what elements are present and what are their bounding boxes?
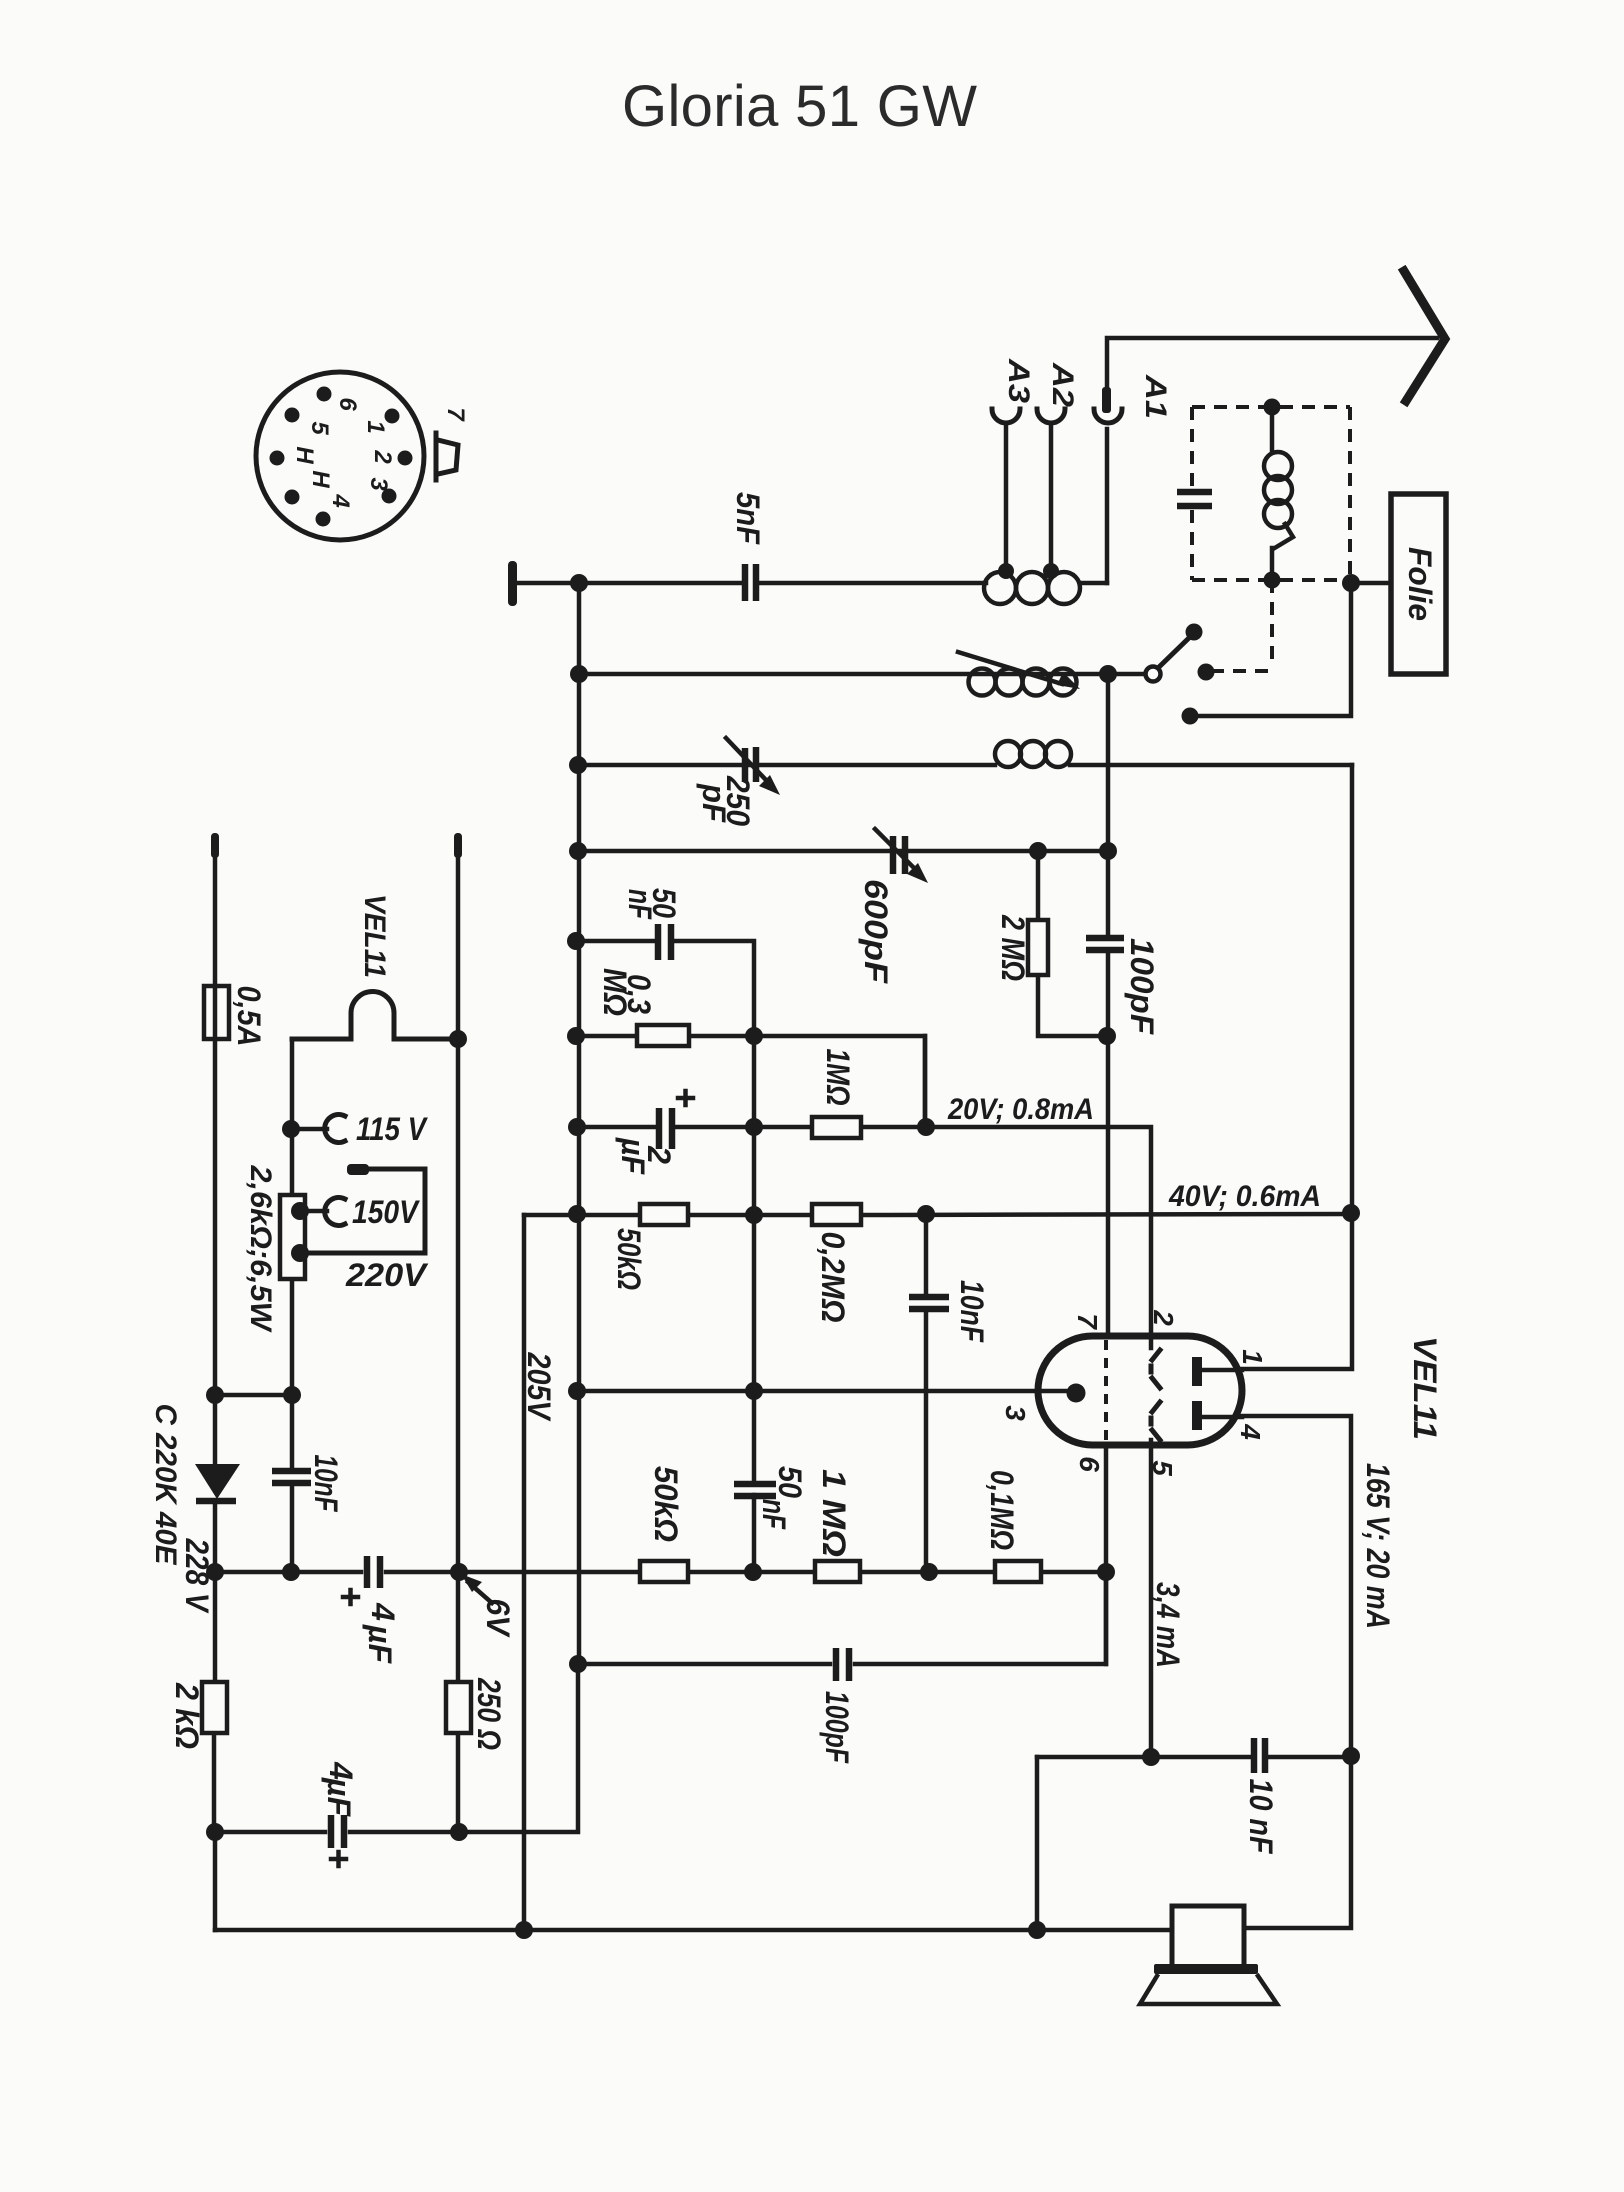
dashed wave trap box left [1190,407,1194,580]
node 0.2M junction row1127 [917,1118,935,1136]
svg-text:VEL11: VEL11 [1407,1336,1443,1440]
node 10nF junction row1214 [917,1205,935,1223]
svg-text:7: 7 [442,407,469,422]
svg-text:50kΩ: 50kΩ [648,1466,684,1542]
svg-text:pF: pF [696,783,732,823]
wire A1 stem down to RF row [1105,429,1110,583]
wire 205V vertical [522,1215,527,1930]
tube anode upper bar [1192,1357,1202,1386]
inductor L1 antenna coil [984,572,1080,604]
arrow 600pF trimmer [875,829,928,883]
terminal A2 socket cup [1037,409,1065,423]
node bus row765 [569,756,587,774]
svg-text:µF: µF [615,1137,651,1175]
node bus row1127 [568,1118,586,1136]
socket pin 3 [382,489,397,504]
node 150V tap [291,1202,309,1220]
node bus row851 [569,842,587,860]
node speaker branch bottom [1028,1921,1046,1939]
wire left vertical down to bottom row [213,1832,218,1930]
node bus row1036 [567,1027,585,1045]
plus sign 4uF upper [343,1590,358,1604]
socket pin 5 [285,408,300,423]
wire pin5 vertical [1149,1440,1154,1757]
tube anode upper lead [1199,1368,1242,1373]
wire 0.3M link down [923,1036,928,1127]
antenna symbol arrow [1404,271,1445,401]
capacitor 2uF plates [659,1108,672,1149]
wire link row1395 [215,1393,292,1398]
resistor 0.2MOhm [812,1204,861,1225]
node bus row1391 [568,1382,586,1400]
voltage selector plug bar [347,1164,369,1175]
inductor L2 variable coil [958,652,1080,696]
wire speaker branch down [1035,1757,1040,1930]
socket key notch [436,433,458,480]
wire row1036 [576,1036,925,1127]
node diode line row1572 [206,1563,224,1581]
node wave trap coil bottom [1264,572,1281,589]
capacitor 100pF plates [1086,938,1124,950]
svg-text:2,6kΩ;6,5W: 2,6kΩ;6,5W [244,1164,277,1333]
wire row941 to 50nF [576,941,754,1036]
label 2 uF [615,1137,677,1175]
svg-text:165 V; 20 mA: 165 V; 20 mA [1360,1463,1396,1629]
svg-text:2: 2 [369,449,396,464]
node A3 tap on coil [998,563,1014,579]
switch pivot [1146,667,1161,682]
tube grid dashes lower [1151,1402,1160,1440]
svg-text:4: 4 [327,493,354,507]
dashed wave trap box bottom [1192,578,1350,582]
tube grid dashes upper [1151,1350,1160,1388]
tube cathode dot pin3 [1067,1384,1086,1403]
socket pin 2 [398,451,413,466]
svg-text:1: 1 [1237,1349,1268,1365]
label 0,3 MOhm [597,968,657,1016]
wire row1832 [215,1664,578,1832]
capacitor 600pF variable plates [893,836,905,874]
switch lever end dot [1186,624,1203,641]
svg-text:10nF: 10nF [308,1455,344,1513]
tube anode lower bar [1192,1401,1202,1430]
wire row1127 grid row [577,1127,1151,1348]
node 205V bottom [515,1921,533,1939]
label 4uF lower [321,1761,359,1817]
node 10nF branch row1572 [920,1563,938,1581]
terminal A3 socket cup [992,409,1020,423]
node pin6 row1572 [1097,1563,1115,1581]
label 50 nF [622,888,682,920]
resistor 250Ohm [446,1682,471,1733]
capacitor 50nF bottom plates [734,1484,776,1496]
node pin5 row1757 [1142,1748,1160,1766]
svg-text:2 MΩ: 2 MΩ [995,914,1031,981]
node fuse line row1395 [206,1386,224,1404]
wire row1572 left portion [215,1570,640,1575]
wire row1757 [1037,1755,1351,1760]
hook 150V [325,1198,345,1226]
terminal A1 plug bar [1102,387,1111,413]
terminal A1 socket cup [1094,409,1122,423]
svg-text:nF: nF [756,1499,792,1530]
label 4 uF upper [362,1602,401,1664]
wire main left bus vertical [577,583,582,1664]
Folie box [1391,494,1446,674]
ground terminal top left [508,561,517,606]
node 2k bottom row1832 [206,1823,224,1841]
svg-text:A2: A2 [1046,362,1079,407]
svg-text:115 V: 115 V [356,1111,428,1147]
wire row1214 anode row [524,1214,1351,1215]
node heater tap row1395 [283,1386,301,1404]
wire pin6 vertical [1104,1445,1109,1664]
capacitor wave trap plates [1177,492,1212,506]
fuse 0,5A body [204,986,229,1039]
tube VEL11 envelope [1038,1336,1242,1445]
capacitor 100pF bottom plates [836,1648,849,1681]
wire Folie link [1351,581,1391,586]
socket pin 1 [385,409,400,424]
node 50nF junction row1036 [745,1027,763,1045]
svg-text:0,1MΩ: 0,1MΩ [984,1470,1020,1550]
node right vertical row1757 [1342,1747,1360,1765]
capacitor 250pF variable plates [745,747,756,782]
hook 115V [325,1115,345,1143]
svg-text:1 MΩ: 1 MΩ [816,1469,852,1557]
svg-text:nF: nF [622,889,658,920]
svg-text:Folie: Folie [1402,547,1438,621]
dashed wave trap box right [1348,407,1352,578]
svg-text:5: 5 [306,421,333,435]
arrow 6V pointer [461,1574,492,1603]
svg-text:6: 6 [334,397,361,411]
svg-text:50: 50 [772,1466,808,1498]
resistor 1MOhm top [812,1117,861,1138]
node switch junction [1099,665,1117,683]
svg-text:4: 4 [365,1602,401,1621]
label 250 pF [696,775,756,826]
wire bottom ground row [215,1928,1172,1933]
speaker cone [1140,1976,1277,2004]
node pin7 branch row851 [1099,842,1117,860]
node heater junction [449,1030,467,1048]
node x754 row1215 [745,1206,763,1224]
capacitor 4uF lower plates [331,1815,344,1848]
svg-text:1MΩ: 1MΩ [820,1049,856,1106]
svg-text:7: 7 [1072,1313,1103,1330]
mains terminal right [454,833,462,858]
resistor 2MOhm [1028,920,1048,975]
plus sign 2uF [678,1091,693,1105]
speaker driver box [1172,1906,1244,1967]
capacitor 10nF power plates [272,1471,311,1483]
wire 150V tap lead [300,1209,327,1214]
capacitor 50nF plates [658,924,671,960]
svg-text:100pF: 100pF [819,1691,855,1764]
node A2 tap on coil [1043,563,1059,579]
svg-text:205V: 205V [521,1352,557,1422]
wire right vertical from row765 down to pin1 [1242,765,1352,1369]
wire band row y674 from bus [579,672,1146,677]
svg-text:A1: A1 [1139,374,1172,419]
node wave trap coil top [1264,399,1281,416]
wire top RF row y583 left [517,581,741,586]
svg-text:A3: A3 [1002,358,1035,403]
capacitor 5nF plates [745,564,756,601]
svg-text:0,5A: 0,5A [231,986,267,1047]
svg-text:3: 3 [365,477,392,491]
wire fuse line vertical [214,855,215,1832]
resistor 0.3MOhm [637,1025,689,1046]
svg-text:100pF: 100pF [1124,938,1160,1036]
svg-text:0,2MΩ: 0,2MΩ [815,1232,851,1323]
svg-text:150V: 150V [352,1194,420,1230]
capacitor 4uF upper plates [367,1556,380,1588]
wire switch junction down to row851 and beyond [1106,674,1111,851]
wire heater tap vertical x292 [290,1039,295,1572]
wire row1664 [578,1572,1106,1664]
inductor wave trap coil [1264,407,1293,580]
node 250 bottom row1832 [450,1823,468,1841]
svg-text:H: H [307,470,334,488]
plus sign 4uF lower [331,1852,346,1866]
mains terminal left [211,833,219,858]
svg-text:220V: 220V [345,1257,429,1293]
socket pin 6 [317,387,332,402]
dashed wave trap box top [1192,405,1350,409]
resistor 2,6kOhm 6,5W [280,1195,305,1279]
svg-text:3: 3 [1000,1405,1031,1421]
svg-text:2: 2 [1148,1309,1179,1326]
wire x754 down to row1391 [752,1215,757,1391]
socket pin 4 [316,512,331,527]
node main bus top [570,574,588,592]
capacitor 10nF plates [909,1297,949,1309]
node bus row941 [567,932,585,950]
resistor 0,1MOhm [995,1561,1041,1582]
svg-text:40V; 0.6mA: 40V; 0.6mA [1168,1180,1321,1213]
svg-text:C 220K 40E: C 220K 40E [149,1404,182,1566]
wire x754 down to 50nF bottom [752,1391,757,1572]
svg-text:6V: 6V [480,1599,516,1639]
svg-text:µF: µF [362,1624,398,1664]
tube pin7 dashed electrode [1104,1340,1108,1441]
svg-text:1: 1 [362,420,389,433]
arrow 250pF trimmer [726,738,780,795]
wire 10nF branch vertical [924,1214,929,1572]
resistor 1MOhm bottom [815,1561,860,1582]
node 40V row right [1342,1204,1360,1222]
node 50nF bottom row1572 [744,1563,762,1581]
svg-text:5nF: 5nF [730,492,766,545]
node 10nF line row1572 [282,1563,300,1581]
tube socket bottom view U1 [256,372,424,540]
socket pin H lower [285,490,300,505]
resistor 2kOhm [202,1682,227,1733]
svg-text:VEL11: VEL11 [358,894,391,978]
svg-text:4: 4 [1235,1423,1266,1440]
wire row851 [578,849,1108,854]
dashed link to switch contact [1214,580,1272,671]
svg-text:10 nF: 10 nF [1243,1779,1279,1855]
wire voltage selector bracket [300,1169,425,1253]
svg-text:250 Ω: 250 Ω [471,1677,507,1750]
capacitor 10nF speaker plates [1254,1738,1265,1773]
wire row1572 right portion [688,1570,1106,1575]
svg-text:10nF: 10nF [954,1280,990,1343]
node Folie junction [1342,574,1360,592]
wire heater line vertical x458 [456,855,461,1832]
node main bus row1664 [569,1655,587,1673]
node 2M branch row851 [1029,842,1047,860]
diode C220K40E [195,1464,240,1501]
node x754 row1391 [745,1382,763,1400]
svg-text:3,4 mA: 3,4 mA [1150,1582,1186,1668]
wire A2 stem [1049,423,1054,571]
socket pin H upper [270,451,285,466]
wire A3 stem [1004,423,1009,571]
switch lever [1159,636,1191,667]
resistor 50kOhm mid [640,1204,688,1225]
svg-text:6: 6 [1074,1456,1105,1472]
svg-text:600pF: 600pF [858,879,894,985]
label 50 nF bottom [756,1466,808,1530]
node 100pF bottom junction [1098,1027,1116,1045]
wire RF row y765 [578,763,1352,768]
resistor 50kOhm bottom [640,1561,688,1582]
inductor L3 coil row765 [995,741,1071,767]
node bus row674 [570,665,588,683]
switch contact upper [1198,664,1215,681]
svg-text:H: H [291,446,318,464]
node 220V tap [291,1244,309,1262]
wire pin7 vertical with 100pF [1106,851,1111,1336]
speaker magnet bar [1154,1964,1258,1974]
wire right vertical to speaker [1244,1756,1351,1928]
node 2uF junction row1127 [745,1118,763,1136]
wire top RF row y583 right [760,581,1107,586]
svg-text:2 kΩ: 2 kΩ [169,1682,205,1749]
svg-text:50kΩ: 50kΩ [611,1228,647,1290]
node 6V junction [450,1563,468,1581]
node bus row1214 [568,1205,586,1223]
wire antenna lead A1 top [1107,338,1437,390]
heater VEL11 filament hump [292,992,458,1040]
svg-text:20V; 0.8mA: 20V; 0.8mA [947,1093,1094,1126]
svg-text:MΩ: MΩ [597,968,633,1016]
switch contact lower [1182,708,1199,725]
node 115V tap [282,1120,300,1138]
wire 115V tap lead [291,1127,327,1132]
wire 2MOhm branch vertical [1038,851,1105,1036]
svg-text:µF: µF [321,1777,357,1817]
wire lower contact to right vertical [1190,583,1351,716]
wire 50nF branch down [752,1036,757,1127]
tube anode lower lead pin4 [1199,1416,1351,1756]
wire branch x754 down [752,1127,757,1215]
wire grid row1391 [577,1389,1072,1394]
svg-text:Gloria 51 GW: Gloria 51 GW [622,74,978,139]
